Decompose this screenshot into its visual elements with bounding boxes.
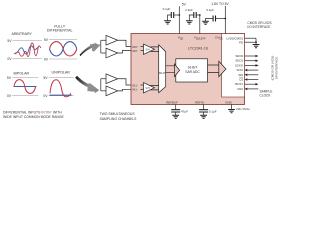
wire: VDDLBYP supply line (199, 15, 201, 34)
svg-text:5V: 5V (44, 38, 49, 42)
svg-text:16-BIT: 16-BIT (188, 66, 198, 70)
IC U1 LTC2341-16 body (131, 34, 245, 105)
wire: BUSY output arrow (245, 83, 256, 85)
wire: panel4 5V reference line (49, 76, 74, 78)
svg-text:CLOCK: CLOCK (260, 93, 272, 97)
wire: PD pin to ground net (245, 41, 257, 43)
wire: REFBUF to C4 (175, 105, 177, 110)
wire: A4 output to IN1- (118, 89, 131, 91)
wire: IN1- to S/H (141, 88, 144, 90)
node: pin label IN0- (132, 49, 139, 53)
svg-text:IN1–: IN1– (132, 88, 139, 92)
wire: A3 output to IN1+ (118, 79, 131, 85)
node: pin label REFIN (195, 100, 204, 104)
svg-text:SCKI: SCKI (236, 68, 243, 72)
node: differential sine red trace (50, 42, 77, 56)
ground: GND pin (228, 110, 235, 113)
svg-text:VDD: VDD (178, 36, 184, 41)
capacitor C1 0.1uF label (163, 7, 171, 11)
svg-text:TWO SIMULTANEOUS: TWO SIMULTANEOUS (100, 112, 136, 116)
svg-text:0.1µF: 0.1µF (206, 8, 214, 12)
node: bus arrowhead into I/O block (219, 61, 226, 76)
wire: channel1 input vertical (100, 79, 102, 91)
op-amp S/H channel0 (144, 44, 155, 54)
wire: SDO1 output arrow (245, 60, 256, 62)
node: unipolar red sine (50, 80, 71, 97)
wire: interface mode vertical (255, 38, 257, 44)
svg-text:0.1µF: 0.1µF (163, 7, 171, 11)
node: MUX block (159, 45, 166, 93)
svg-text:5V: 5V (182, 2, 187, 6)
svg-text:MUX: MUX (159, 71, 166, 75)
node: bipolar red sine (14, 80, 36, 94)
node: 0V level label panel3 (7, 94, 12, 98)
svg-text:2.2µF: 2.2µF (185, 8, 193, 12)
node: pin label VDD (178, 36, 184, 41)
node: bipolar common-mode blue line (14, 86, 37, 88)
svg-text:SAMPLING CHANNELS: SAMPLING CHANNELS (100, 117, 138, 121)
op-amp A4 (106, 86, 118, 96)
node: pin label CS (239, 78, 243, 82)
node: pin label SDO1 (235, 59, 243, 63)
node: pin label OVDD (215, 36, 223, 41)
svg-text:S/H: S/H (146, 87, 150, 90)
wire: channel0 stub to amp A2 (101, 52, 106, 54)
svg-text:REFBUF: REFBUF (166, 100, 178, 104)
node: figure number label (236, 108, 250, 111)
svg-text:BUSY: BUSY (235, 82, 243, 86)
node: junction dot PD (255, 41, 257, 43)
wire: panel3 0V reference line (12, 95, 39, 97)
svg-text:DIFFERENTIAL INPUTS IN+/IN– WI: DIFFERENTIAL INPUTS IN+/IN– WITH (3, 110, 62, 114)
wire: A2 output to IN0- (118, 50, 131, 53)
node: junction dot VDD/cap1 (178, 14, 180, 16)
svg-text:ARBITRARY: ARBITRARY (11, 32, 32, 36)
svg-text:S/H: S/H (146, 48, 150, 51)
node: arbitrary waveform red trace (14, 43, 41, 57)
svg-text:SDO1: SDO1 (235, 59, 243, 63)
node: swoosh arrow lower (75, 76, 99, 91)
wire: C4 to ground (175, 112, 177, 115)
wire: OVDD supply line (224, 6, 226, 34)
node: 0V level label panel4 (43, 94, 48, 98)
node: pin label VDDLBYP (194, 36, 206, 41)
wire: REFIN to C5 (203, 105, 205, 110)
svg-text:WIDE INPUT COMMON MODE RANGE: WIDE INPUT COMMON MODE RANGE (3, 115, 65, 119)
node: arbitrary waveform blue trace (15, 46, 39, 54)
wire: SCKO output arrow (245, 64, 259, 66)
wire: C1 to ground (168, 15, 172, 21)
node: SAMPLE CLOCK label (260, 90, 273, 98)
wire: IN0- to S/H (141, 49, 144, 51)
node: pin label SCKO (235, 63, 244, 67)
node: pin label CNV (237, 87, 243, 91)
capacitor C4 47uF label (181, 110, 188, 114)
node: part number LTC2341-16 (188, 46, 208, 50)
wire: A1 output to IN0+ (118, 40, 131, 46)
node: pin label IN0+ (132, 45, 139, 49)
wire: ADC output bus pair (208, 65, 219, 73)
wire: S/H1 outputs to MUX (151, 85, 159, 90)
svg-text:5V: 5V (7, 76, 12, 80)
svg-text:0V: 0V (7, 94, 12, 98)
node: junction dot cap2 (199, 14, 201, 16)
svg-text:2341 TA01a: 2341 TA01a (236, 108, 250, 111)
capacitor C2 2.2uF label (185, 8, 193, 12)
svg-text:GND: GND (225, 100, 231, 104)
capacitor C5 0.1uF label (209, 110, 217, 114)
svg-text:5V: 5V (7, 39, 12, 43)
wire: C3 to OVDD line (215, 18, 225, 20)
node: pin label SDO0 (235, 54, 243, 58)
node: pin label PD (239, 40, 243, 44)
node: 5V level label panel2 (44, 38, 49, 42)
node: LVDS/CMOS I/O block (222, 34, 245, 97)
wire: CNV input arrow (247, 88, 258, 90)
wire: panel2 0V reference line (49, 58, 77, 60)
node: pin label IN1+ (132, 83, 139, 87)
svg-text:REFIN: REFIN (195, 100, 204, 104)
node: pin label REFBUF (166, 100, 178, 104)
node: 0V level label panel2 (44, 57, 49, 61)
op-amp S/H channel1 (144, 83, 155, 93)
svg-text:47µF: 47µF (181, 110, 188, 114)
wire: C2 to VDDLBYP line (196, 14, 200, 16)
op-amp A3 (106, 74, 118, 84)
node: junction dot cap3 (224, 18, 226, 20)
svg-text:CS: CS (239, 78, 243, 82)
svg-text:0V: 0V (7, 57, 12, 61)
wire: channel0 stub to amp A1 (101, 39, 106, 41)
node: differential sine blue trace (50, 42, 77, 56)
node: 1.8V TO 5V supply label (211, 2, 229, 6)
wire: C2 to ground (189, 15, 194, 21)
node: pin label BUSY (235, 82, 243, 86)
wire: panel1 0V reference line (13, 58, 43, 60)
wire: SDO0 output arrow (245, 55, 256, 57)
svg-text:1.8V TO 5V: 1.8V TO 5V (211, 2, 229, 6)
wire: IN1+ to S/H (141, 84, 144, 86)
node: caption two simultaneous channels (100, 112, 138, 121)
ground: C5 (200, 115, 207, 118)
svg-text:SDI: SDI (238, 73, 243, 77)
svg-text:CMOS OR LVDS: CMOS OR LVDS (247, 21, 271, 25)
wire: MUX output bus pair (166, 66, 175, 73)
wire: S/H0 outputs to MUX (151, 47, 159, 52)
svg-text:IN0–: IN0– (132, 49, 139, 53)
wire: IN0+ to S/H (141, 46, 144, 48)
node: caption differential inputs (3, 110, 65, 119)
ground: C1 (164, 21, 171, 24)
capacitor C1 plates (171, 12, 173, 18)
wire: CS input arrow (247, 79, 258, 81)
svg-text:0V: 0V (44, 57, 49, 61)
ground: C4 (172, 115, 179, 118)
svg-text:5V: 5V (43, 76, 48, 80)
node: pin label IN1- (132, 88, 139, 92)
wire: channel1 stub to amp A4 (101, 90, 106, 92)
svg-text:LTC2341-16: LTC2341-16 (188, 46, 208, 50)
wire: C1 to VDD line (174, 14, 180, 16)
svg-text:CNV: CNV (237, 87, 243, 91)
svg-text:I/O INTERFACE: I/O INTERFACE (247, 25, 270, 29)
node: UNIPOLAR panel title (52, 71, 71, 75)
wire: panel1 5V reference line (13, 39, 43, 41)
node: SPI interface rotated label (271, 56, 279, 81)
svg-text:SCKO: SCKO (235, 63, 244, 67)
svg-text:SPI INTERFACE: SPI INTERFACE (275, 57, 279, 80)
capacitor C3 0.1uF label (206, 8, 214, 12)
node: swoosh arrow upper (80, 44, 101, 57)
node: 16-BIT SAR ADC block (176, 59, 208, 82)
svg-text:VDDLBYP: VDDLBYP (194, 36, 206, 41)
capacitor C2 plates (194, 12, 196, 18)
node: pin label LVDS/CMOS (226, 36, 243, 40)
node: channel0 input arrow (90, 43, 99, 49)
op-amp A1 (106, 35, 118, 45)
node: BIPOLAR panel title (14, 72, 30, 76)
svg-text:PD: PD (239, 40, 243, 44)
svg-text:0.1µF: 0.1µF (209, 110, 217, 114)
node: 5V level label panel4 (43, 76, 48, 80)
op-amp A2 (106, 48, 118, 58)
svg-text:BIPOLAR: BIPOLAR (14, 72, 30, 76)
wire: SDI input arrow (247, 74, 258, 76)
svg-text:UNIPOLAR: UNIPOLAR (52, 71, 71, 75)
node: 5V level label panel3 (7, 76, 12, 80)
capacitor C4 47uF plates (171, 110, 180, 112)
capacitor C3 plates (213, 16, 215, 22)
ground: interface mode pins (253, 45, 260, 48)
ground: C3 (202, 21, 209, 24)
svg-text:SAR ADC: SAR ADC (185, 70, 200, 74)
node: 5V level label panel1 (7, 39, 12, 43)
wire: GND pin to ground (231, 105, 233, 110)
node: unipolar zero blue line (50, 94, 72, 96)
ground: C2 (186, 21, 193, 24)
node: channel1 input arrow (90, 87, 99, 93)
svg-text:0V: 0V (43, 94, 48, 98)
node: bus arrowhead into ADC (175, 64, 180, 77)
svg-text:SDO0: SDO0 (235, 54, 243, 58)
wire: panel4 0V reference line (49, 95, 74, 97)
capacitor C5 0.1uF plates (199, 110, 208, 112)
wire: C3 to ground (206, 19, 214, 22)
wire: C5 to ground (203, 112, 205, 115)
node: pin label SDI (238, 73, 243, 77)
node: FULLY DIFFERENTIAL panel title (47, 25, 73, 33)
wire: channel0 input vertical (100, 40, 102, 53)
wire: VDD supply line (178, 6, 180, 33)
wire: SCKI input arrow (247, 69, 258, 71)
wire: panel2 5V reference line (49, 39, 77, 41)
node: pin label GND (225, 100, 231, 104)
wire: LVDS/CMOS pin to ground net (245, 37, 257, 39)
svg-text:DIFFERENTIAL: DIFFERENTIAL (47, 28, 73, 32)
wire: channel1 stub to amp A3 (101, 78, 106, 80)
wire: panel3 5V reference line (12, 76, 39, 78)
node: 5V supply label (182, 2, 187, 6)
svg-text:OVDD: OVDD (215, 36, 223, 41)
node: 0V level label panel1 (7, 57, 12, 61)
node: CMOS OR LVDS I/O INTERFACE label (247, 21, 271, 29)
node: waveform panel ARBITRARY title (11, 32, 32, 36)
node: pin label SCKI (236, 68, 243, 72)
